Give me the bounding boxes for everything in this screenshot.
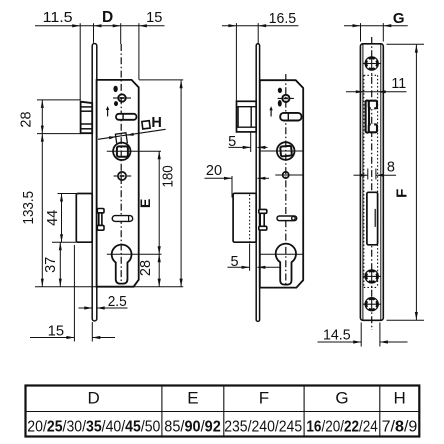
arrow E up — [158, 151, 161, 159]
dimension line 8 left — [354, 174, 368, 176]
mid latch inner face — [250, 107, 252, 128]
latch front bottom box — [369, 124, 377, 132]
arrow 14.5 left — [380, 340, 388, 343]
table divider G-H — [379, 386, 381, 437]
lock case middle view — [260, 80, 303, 287]
screw stub top right — [378, 63, 381, 65]
arrow 16.5 right — [258, 24, 266, 27]
dimension line 14.5 left — [318, 341, 362, 343]
extension line latch tip — [79, 23, 81, 100]
mid lower slot dot — [292, 217, 296, 221]
arrow 11 left — [356, 90, 364, 93]
dimension line 28 left — [41, 100, 43, 134]
arrow 2.5 left — [84, 306, 92, 309]
svg-text:F: F — [393, 189, 410, 198]
extension line mid latch tip — [235, 23, 237, 101]
extension line latch bottom — [37, 133, 81, 135]
table divider F-G — [303, 386, 305, 437]
lock case left view — [97, 80, 139, 287]
svg-text:G: G — [393, 10, 405, 27]
cylinder screw front — [366, 271, 378, 283]
dimension line E — [158, 151, 160, 254]
latch front bottom notch — [371, 124, 374, 129]
arrow 15b right — [66, 336, 74, 339]
centerline left view — [120, 44, 122, 284]
arrow 28R down — [158, 279, 161, 287]
lower slot left view — [112, 216, 133, 222]
svg-text:16.5: 16.5 — [269, 10, 297, 27]
screw2 cross white 1 — [368, 272, 376, 280]
lower slot divider — [128, 216, 130, 222]
svg-text:2.5: 2.5 — [108, 294, 127, 310]
hidden case outline bottom — [364, 286, 378, 288]
screw stub top left — [363, 63, 366, 65]
euro cylinder middle view — [276, 244, 296, 285]
extension line deadbolt top — [58, 193, 77, 195]
dimension line 28 right — [158, 254, 160, 286]
top screw crosshair h — [367, 63, 377, 65]
mid latch top flange — [237, 106, 257, 108]
latch front bar — [366, 101, 369, 133]
deadbolt tail bottom cap — [97, 225, 104, 230]
svg-text:235/240/245: 235/240/245 — [224, 418, 302, 436]
svg-text:28: 28 — [19, 111, 35, 127]
deadbolt front detail — [374, 209, 376, 227]
extension 14.5 left — [360, 323, 362, 347]
bottom screw front — [366, 298, 378, 310]
arrow 44 down — [60, 234, 63, 242]
dimension line 20 left — [205, 177, 233, 179]
follower ref line — [107, 150, 161, 152]
latch groove 2 — [81, 110, 93, 112]
svg-text:180: 180 — [160, 165, 176, 187]
arrow D left — [94, 24, 102, 27]
arrow 5b right — [242, 266, 250, 269]
extension line case right edge top — [138, 23, 140, 79]
wire: top dimension line left view — [35, 25, 165, 27]
screw3 cross white 1 — [368, 300, 376, 308]
screw2 crosshair h — [367, 275, 377, 277]
dimension line 15 right part — [92, 337, 115, 339]
svg-text:D: D — [88, 389, 100, 408]
svg-text:7/8/9: 7/8/9 — [382, 418, 418, 436]
mid latch bottom flange — [237, 126, 257, 128]
screw2 crosshair v — [371, 271, 373, 281]
screw2 stub right — [378, 275, 381, 277]
latch groove 3 — [81, 123, 93, 125]
screw stub right — [126, 97, 131, 99]
dimension line 8 right — [376, 174, 396, 176]
lever slot left view — [116, 114, 137, 120]
centerline middle view — [285, 74, 287, 286]
dimension line 37 — [59, 242, 61, 286]
screw2 cross white 2 — [368, 272, 376, 280]
mid lower slot — [277, 216, 297, 221]
arrow 11.5 right — [72, 24, 80, 27]
extension line faceplate (left view) — [93, 23, 95, 43]
arrow 15b left — [92, 336, 100, 339]
screw3 crosshair h — [367, 303, 377, 305]
hidden case outline right — [377, 75, 379, 287]
dimension line 2.5 left part — [79, 307, 93, 309]
mid bolt tail top cap — [259, 209, 267, 213]
arrow 5t right — [243, 146, 251, 149]
mid bolt tail bar — [260, 213, 264, 226]
arrow 28R up — [158, 254, 161, 262]
arrow H left — [109, 136, 116, 139]
latch bolt middle view — [237, 101, 257, 132]
faceplate middle view — [256, 44, 259, 322]
arrow 180 down — [180, 279, 183, 287]
screw2 stub left — [363, 275, 366, 277]
extension G right — [382, 23, 384, 41]
screw3 stub right — [378, 303, 381, 305]
extension line latch top — [37, 99, 81, 101]
oval slot A — [113, 86, 117, 92]
svg-text:11: 11 — [391, 76, 406, 92]
arrow 20 left — [257, 177, 265, 180]
extension faceplate below — [91, 322, 93, 342]
arrow 11 right — [378, 90, 386, 93]
dimension line 180 — [180, 80, 182, 286]
centerline front view — [371, 37, 373, 330]
extension 8 left — [367, 169, 369, 180]
up arrow marker shaft — [107, 109, 109, 116]
oval slot B — [114, 101, 118, 106]
mid bolt tail bottom cap — [259, 226, 267, 230]
arrow 15 left — [139, 24, 147, 27]
leader line H — [98, 129, 166, 139]
arrow 28L up — [41, 100, 44, 108]
faceplate fold line left — [362, 45, 364, 320]
dimension line 11 — [346, 91, 407, 93]
arrow 20 right — [224, 177, 232, 180]
dimension line 16.5 — [222, 25, 298, 27]
arrow 133.5 down — [41, 279, 44, 287]
pin circle left view — [118, 172, 126, 180]
deadbolt middle view — [233, 193, 256, 242]
arrow 8 left — [360, 174, 368, 177]
extension 14.5 right — [379, 323, 381, 347]
extension G left — [360, 23, 362, 41]
extension 8 right — [375, 169, 377, 180]
latch groove 1 — [81, 106, 93, 108]
top screw front view — [366, 58, 378, 70]
hidden case outline left — [363, 75, 365, 287]
arrow 28L down — [41, 126, 44, 134]
mid oval slot B — [278, 100, 282, 107]
extension line mid faceplate — [257, 23, 259, 44]
svg-text:H: H — [393, 389, 405, 408]
dimension line 20 right — [257, 177, 269, 179]
euro cylinder left view — [112, 245, 132, 284]
deadbolt hidden line — [249, 195, 251, 242]
top screw crosshair v — [371, 58, 373, 68]
pin slot — [120, 175, 125, 177]
hidden case outline top — [364, 74, 378, 76]
latch front top notch — [371, 104, 374, 109]
follower square hole — [117, 146, 128, 156]
svg-text:133.5: 133.5 — [21, 191, 37, 225]
screw3 stub left — [363, 303, 366, 305]
faceplate front view — [360, 44, 383, 321]
deadbolt tail top cap — [97, 209, 104, 213]
dimension line F — [415, 45, 417, 320]
svg-text:15: 15 — [48, 323, 64, 339]
mid adjust screw — [282, 95, 289, 102]
arrow H right — [127, 133, 134, 136]
mid cylinder ref line — [260, 253, 303, 255]
arrow 180 up — [180, 80, 183, 88]
arrow G right — [383, 24, 391, 27]
extension line spindle center top — [120, 23, 122, 44]
arrow 5b left — [257, 266, 265, 269]
top screw cross white 1 — [368, 59, 376, 67]
arrow 16.5 left — [228, 24, 236, 27]
svg-text:37: 37 — [43, 257, 59, 273]
arrow G left — [353, 24, 361, 27]
cylinder ref line — [107, 253, 162, 255]
adjust screw left view — [118, 94, 125, 101]
latch groove 4 — [81, 128, 93, 130]
dimension line 15 left part — [30, 337, 74, 339]
top screw cross white 2 — [368, 59, 376, 67]
latch bolt left view — [81, 102, 93, 134]
extension line 20 — [231, 176, 233, 198]
arrow 8 right — [376, 174, 384, 177]
svg-text:5: 5 — [228, 134, 236, 150]
mid screw stub right — [290, 97, 294, 99]
dimension line 133.5 — [41, 134, 43, 287]
screw3 cross white 2 — [368, 300, 376, 308]
extension line case bottom — [35, 286, 183, 288]
screw stub left — [113, 97, 118, 99]
svg-text:E: E — [137, 199, 153, 208]
svg-text:E: E — [187, 389, 198, 408]
mid pin line — [275, 174, 302, 176]
mid screw slot bar — [284, 97, 289, 99]
svg-text:8: 8 — [387, 160, 395, 176]
svg-text:F: F — [259, 389, 269, 408]
dimension line 14.5 right — [380, 341, 408, 343]
arrow F up — [415, 45, 418, 53]
arrow 2.5 right — [97, 306, 105, 309]
extension line 5 top — [250, 133, 252, 153]
spindle hub square — [115, 133, 127, 145]
dimension line 5 top left — [229, 146, 251, 148]
svg-text:44: 44 — [45, 210, 61, 226]
svg-text:16/20/22/24: 16/20/22/24 — [306, 419, 377, 436]
svg-text:D: D — [102, 9, 113, 26]
case top extension right — [139, 79, 183, 81]
mid oval slot A — [278, 88, 282, 93]
faceplate fold line right — [380, 45, 382, 320]
arrow D right — [113, 24, 121, 27]
svg-text:H: H — [151, 115, 161, 131]
arrow E down — [158, 246, 161, 254]
svg-text:14.5: 14.5 — [323, 328, 351, 344]
latch front top box — [369, 101, 377, 109]
arrow F down — [415, 312, 418, 320]
arrow 37 down — [59, 279, 62, 287]
svg-text:5: 5 — [231, 254, 239, 270]
pin stub right — [127, 175, 131, 177]
dimension line 5 bottom right — [257, 266, 279, 268]
table outer border — [26, 386, 420, 437]
mid lever slot divider — [287, 113, 289, 121]
pin circle middle view — [283, 172, 289, 178]
lever slot divider — [122, 114, 124, 120]
dimension line G — [344, 25, 408, 27]
svg-text:15: 15 — [146, 9, 162, 26]
extension deadbolt tip — [73, 245, 75, 342]
svg-text:28: 28 — [138, 260, 154, 276]
table header rule — [26, 411, 420, 413]
arrow 14.5 right — [353, 340, 361, 343]
dimension line 5 bottom left — [228, 266, 250, 268]
pin stub left — [114, 175, 118, 177]
mid up arrow head — [269, 106, 272, 110]
dimension line 2.5 right part — [97, 307, 128, 309]
dimension line 44 — [61, 194, 63, 243]
label H square symbol — [142, 121, 150, 129]
arrow 133.5 up — [41, 134, 44, 142]
deadbolt front view — [367, 192, 378, 245]
svg-text:G: G — [335, 389, 348, 408]
screw slot bar — [120, 97, 125, 99]
mid follower square hole — [280, 146, 292, 157]
follower middle view — [277, 142, 295, 160]
follower left view — [113, 143, 130, 160]
svg-text:20: 20 — [206, 163, 222, 179]
svg-text:20/25/30/35/40/45/50: 20/25/30/35/40/45/50 — [27, 418, 160, 436]
mid up arrow shaft — [270, 109, 272, 116]
mid screw stub left — [278, 97, 282, 99]
table divider E-F — [223, 386, 225, 437]
faceplate left view — [92, 44, 97, 321]
extension line 5 bottom — [249, 244, 251, 271]
arrow 5t left — [257, 146, 265, 149]
arrow 44 up — [60, 194, 63, 202]
dimension line 5 top right — [257, 146, 267, 148]
screw3 crosshair v — [371, 299, 373, 309]
svg-text:11.5: 11.5 — [43, 9, 73, 26]
deadbolt left view — [76, 194, 92, 243]
svg-text:85/90/92: 85/90/92 — [164, 418, 220, 436]
extension F top — [387, 43, 425, 45]
arrow 37 up — [59, 242, 62, 250]
extension F bottom — [387, 319, 425, 321]
up arrow marker head — [106, 106, 109, 110]
extension line deadbolt bottom — [52, 241, 76, 243]
deadbolt tail bar — [99, 213, 102, 226]
table divider D-E — [161, 386, 163, 437]
mid follower ref line — [260, 150, 303, 152]
mid lever slot — [280, 113, 301, 121]
mid latch inner left — [237, 107, 239, 128]
